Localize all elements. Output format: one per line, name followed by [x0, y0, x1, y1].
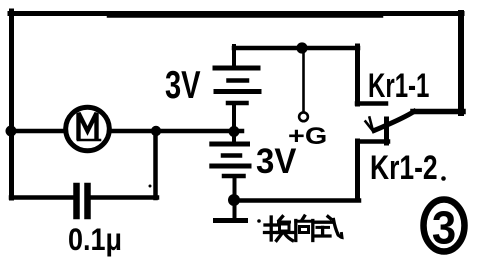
svg-text:Kr1-1: Kr1-1: [368, 67, 429, 105]
svg-text:0.1μ: 0.1μ: [68, 223, 122, 257]
svg-text:3V: 3V: [165, 64, 201, 107]
svg-text:3: 3: [432, 201, 456, 253]
svg-text:+G: +G: [288, 122, 327, 149]
svg-text:Kr1-2: Kr1-2: [370, 149, 438, 187]
